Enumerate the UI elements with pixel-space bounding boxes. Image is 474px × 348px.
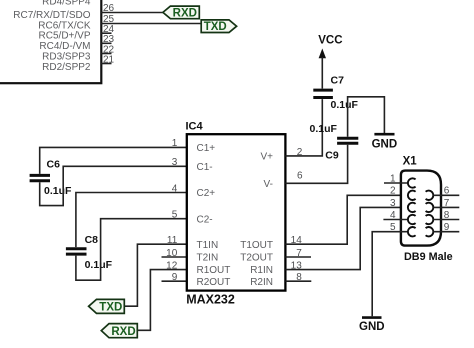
svg-text:RD3/SPP3: RD3/SPP3 [42,52,91,63]
wire X1 pin5 to GND [372,232,408,317]
svg-text:TXD: TXD [204,21,227,33]
svg-text:9: 9 [172,272,178,283]
svg-text:V+: V+ [260,152,273,163]
svg-text:C6: C6 [47,159,61,171]
capacitor C8 [66,249,87,254]
svg-text:10: 10 [166,248,178,259]
svg-text:RD2/SPP2: RD2/SPP2 [42,62,91,73]
wire IC4 pin13 R1IN to X1 pin3 [285,207,408,269]
svg-text:9: 9 [444,222,450,233]
svg-text:0.1uF: 0.1uF [331,99,359,111]
svg-text:3: 3 [172,157,178,168]
svg-text:TXD: TXD [99,301,122,313]
svg-text:RD4/SPP4: RD4/SPP4 [42,0,91,7]
X1 contact pin7 [426,203,434,212]
wire IC4 pin14 T1OUT to X1 pin2 [285,195,408,244]
svg-text:11: 11 [167,235,178,246]
svg-text:X1: X1 [403,156,418,168]
X1 pin 7 stub wire [433,206,459,208]
svg-text:RXD: RXD [111,326,135,338]
X1 contact pin2 [408,191,416,200]
pin 7 stub wire (T2OUT) [285,256,311,258]
svg-text:5: 5 [390,222,396,233]
X1 pin 9 stub wire [433,231,459,233]
net flag RXD (bottom, pointing left) [101,324,137,338]
svg-text:C2-: C2- [197,214,213,225]
svg-text:GND: GND [372,138,398,150]
svg-text:7: 7 [444,198,450,209]
pin 21 stub wire [101,63,112,65]
svg-text:8: 8 [444,210,450,221]
svg-text:R2IN: R2IN [250,277,273,288]
svg-text:T1IN: T1IN [197,240,219,251]
pin 8 stub wire (R2IN) [285,280,311,282]
svg-text:R1OUT: R1OUT [197,265,231,276]
wire C7 bottom to IC4 pin2 V+ [285,99,322,156]
connector X1 DB9 body [401,171,441,246]
pin 22 stub wire [101,53,112,55]
svg-text:RXD: RXD [173,7,197,19]
svg-text:0.1uF: 0.1uF [310,123,338,135]
capacitor C6 [30,175,50,180]
X1 pin 6 stub wire [433,194,459,196]
svg-text:C1+: C1+ [197,143,216,154]
capacitor C7 [313,90,333,97]
svg-text:R2OUT: R2OUT [197,277,231,288]
svg-text:T2OUT: T2OUT [240,253,273,264]
svg-text:DB9 Male: DB9 Male [404,251,453,263]
X1 contact pin4 [408,215,416,224]
net flag TXD (top, pointing right) [201,20,236,33]
svg-text:1: 1 [390,173,396,184]
wire C9 bottom to IC4 pin6 V- [285,145,347,184]
X1 contact pin3 [408,203,416,212]
ground GND (top) [372,134,398,150]
net flag RXD (top, pointing left) [163,6,199,19]
svg-text:0.1uF: 0.1uF [85,259,113,271]
wire pin 25 to TXD flag [101,23,201,25]
svg-text:GND: GND [359,321,385,333]
X1 pin 4 stub wire [383,219,408,221]
svg-text:C1-: C1- [197,162,213,173]
svg-text:RC6/TX/CK: RC6/TX/CK [38,20,91,31]
svg-text:5: 5 [172,210,178,221]
svg-text:C7: C7 [331,75,345,87]
pin 9 stub wire (R2OUT) [162,280,187,282]
svg-text:4: 4 [390,210,396,221]
svg-text:IC4: IC4 [186,121,204,133]
svg-text:C8: C8 [85,234,99,246]
wire IC4 pin11 T1IN to TXD flag [124,244,187,306]
VCC power symbol [318,35,342,89]
svg-text:R1IN: R1IN [250,265,273,276]
svg-text:T2IN: T2IN [197,253,219,264]
svg-text:RC7/RX/DT/SDO: RC7/RX/DT/SDO [13,10,90,21]
wire IC4 pin4 C2+ to C8 top [76,193,187,248]
wire C6 bottom to IC4 pin3 C1- [40,166,187,205]
svg-text:6: 6 [444,186,450,197]
X1 contact pin9 [426,227,434,236]
net flag TXD (bottom, pointing left) [89,299,125,313]
svg-text:6: 6 [297,171,303,182]
svg-text:0.1uF: 0.1uF [44,185,72,197]
X1 contact pin5 [408,227,416,236]
svg-text:12: 12 [166,260,178,271]
X1 pin 1 stub wire [384,182,408,184]
svg-text:T1OUT: T1OUT [240,240,273,251]
svg-text:C9: C9 [325,149,339,161]
microcontroller U1 (partial box, cut at left/top) [0,0,101,83]
svg-text:RC5/D+/VP: RC5/D+/VP [39,31,91,42]
pin 23 stub wire [101,42,112,44]
svg-text:VCC: VCC [318,35,342,47]
svg-text:2: 2 [390,186,396,197]
wire C9 top to GND [348,97,385,137]
svg-text:MAX232: MAX232 [186,293,235,307]
pin 10 stub wire (T2IN) [162,256,187,258]
pin 24 stub wire [101,32,112,34]
wire IC4 pin1 C1+ to C6 top [40,147,187,174]
wire pin 26 to RXD flag [101,12,163,14]
X1 pin 8 stub wire [433,219,459,221]
svg-text:3: 3 [390,198,396,209]
X1 contact pin8 [426,215,434,224]
X1 contact pin6 [426,191,434,200]
capacitor C9 [337,138,358,143]
svg-text:1: 1 [172,138,178,149]
svg-text:V-: V- [264,179,273,190]
svg-text:RC4/D-/VM: RC4/D-/VM [39,41,90,52]
wire IC4 pin12 R1OUT to RXD flag [137,270,187,331]
op IC4 MAX232 body [187,134,286,290]
X1 contact pin1 [408,178,416,187]
svg-text:C2+: C2+ [197,188,216,199]
svg-text:4: 4 [172,183,178,194]
wire C8 bottom to IC4 pin5 C2- [76,219,187,281]
ground GND (bottom) [359,318,385,333]
